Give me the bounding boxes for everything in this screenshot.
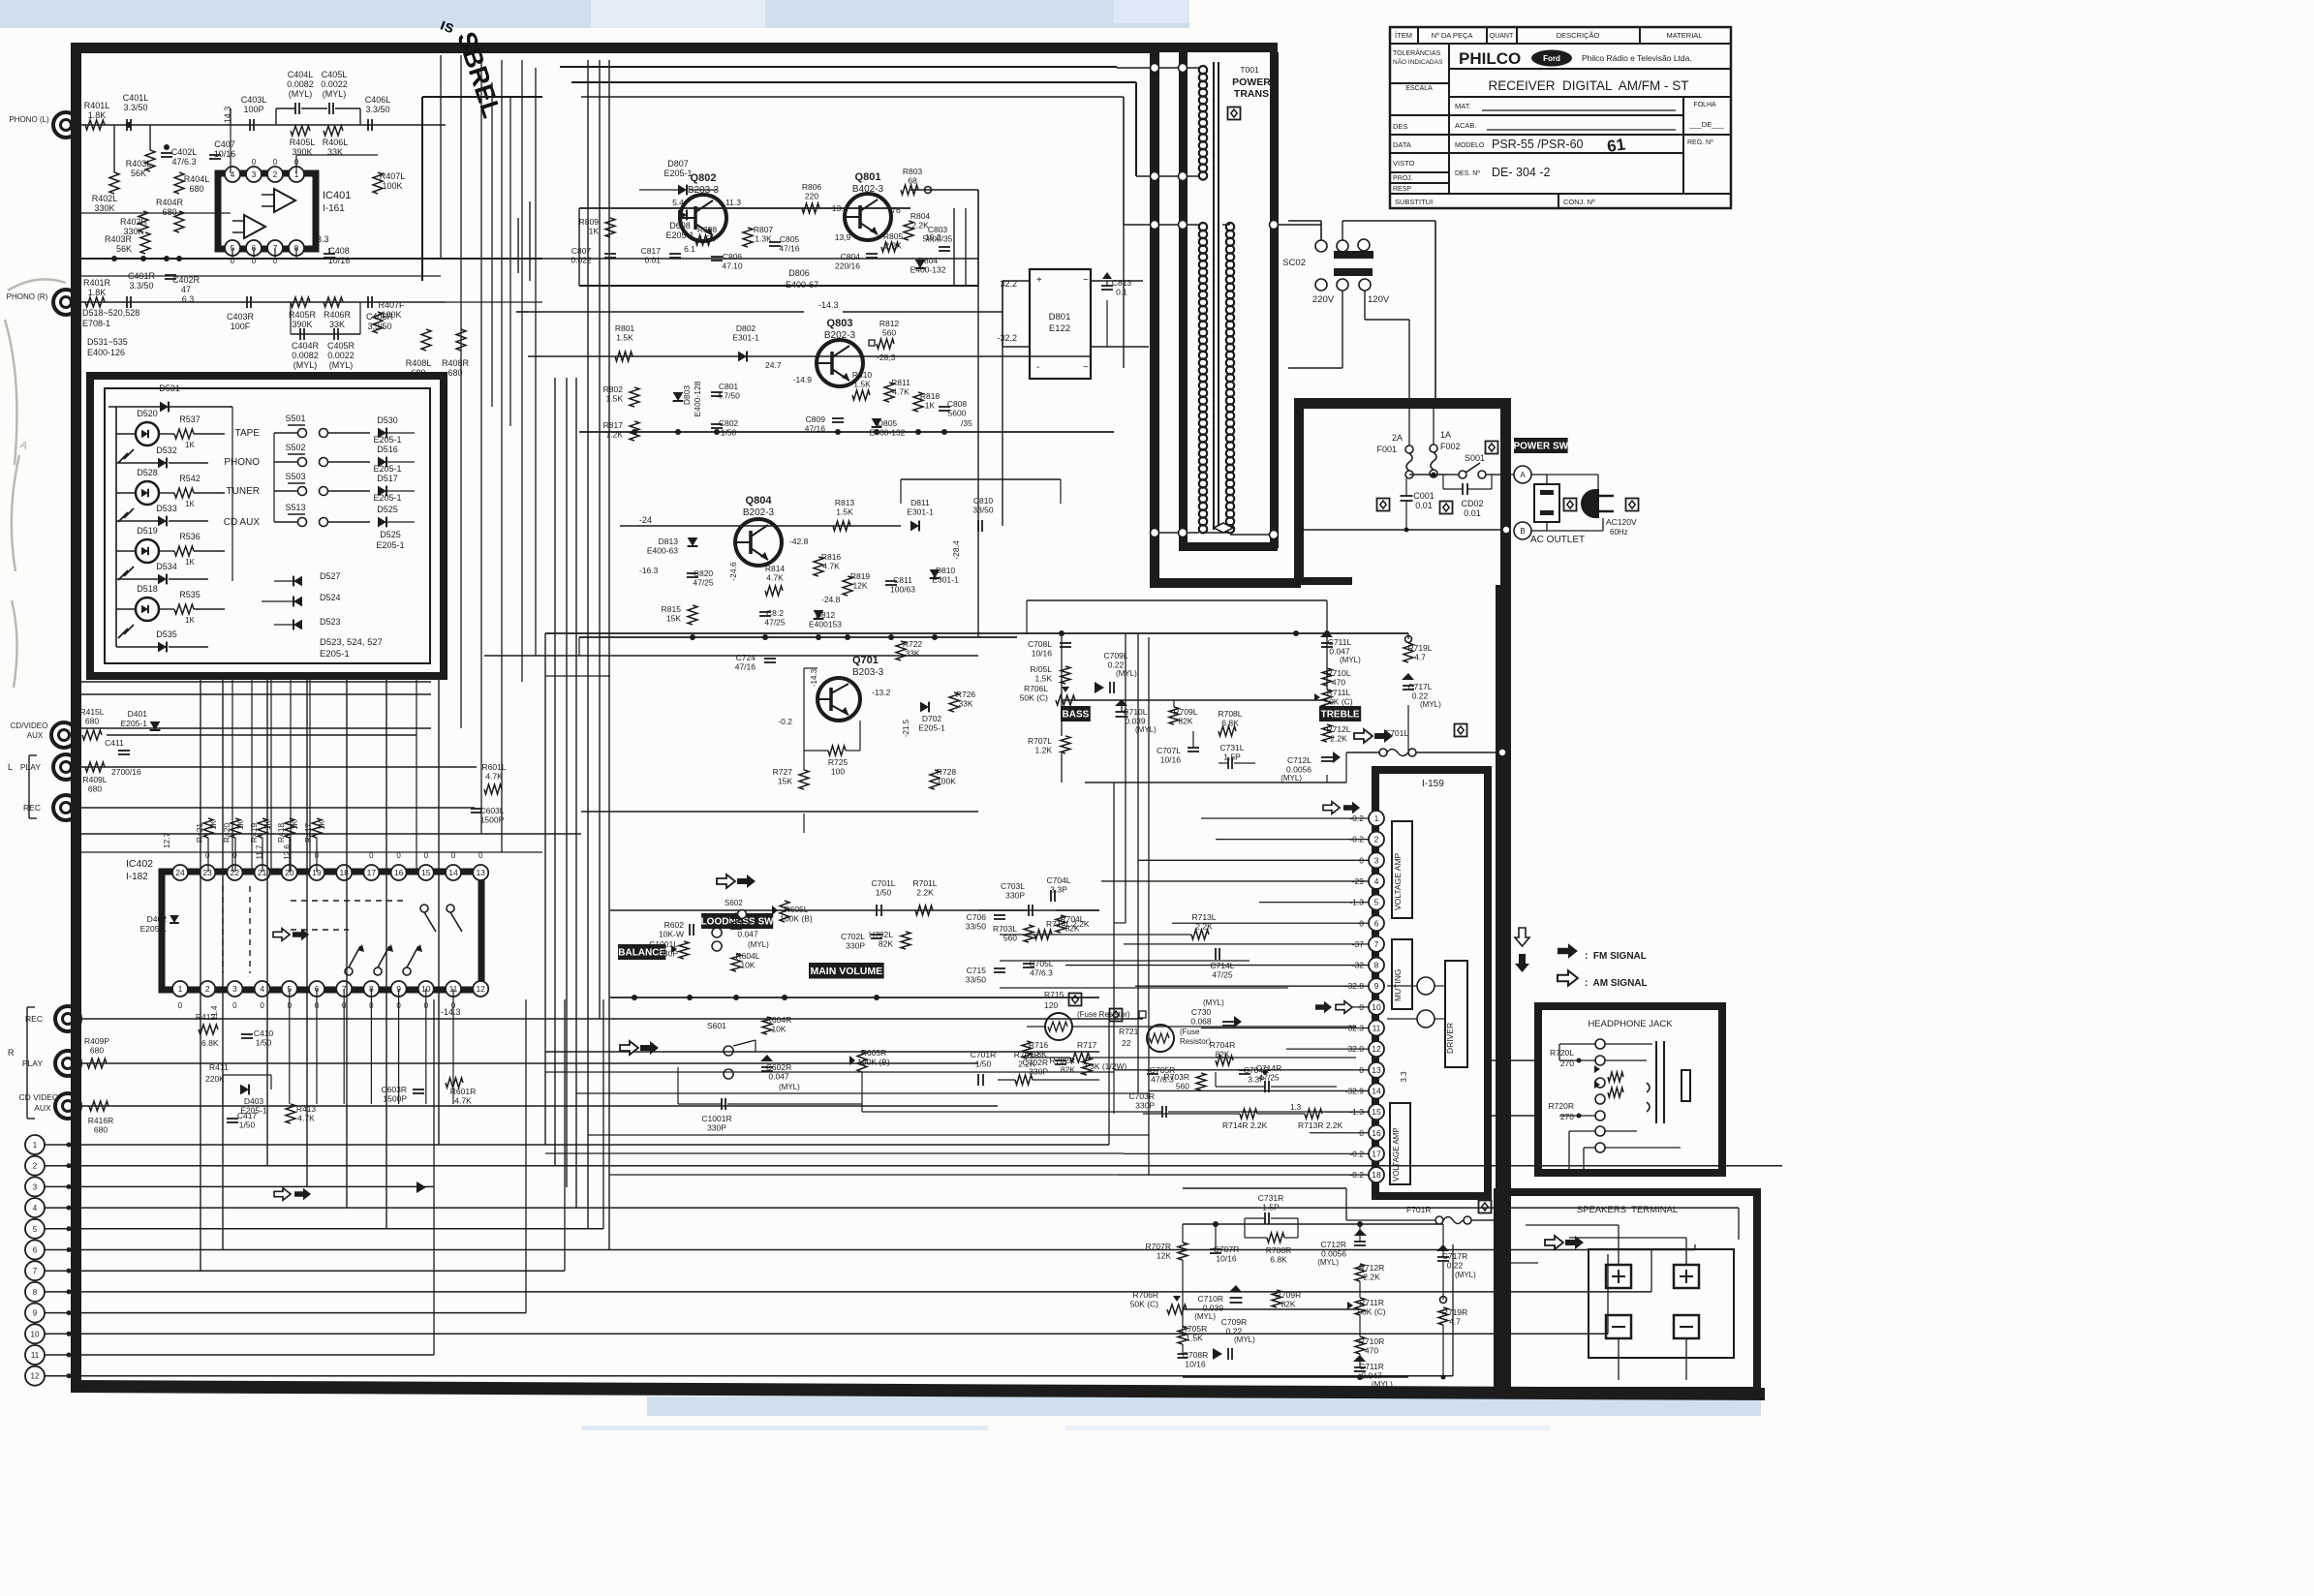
svg-text:Q803: Q803 (827, 318, 853, 329)
resistor R801 (615, 352, 632, 361)
IC402 internal switch (345, 967, 353, 975)
resistor R416R (89, 1101, 108, 1111)
resistor R703L (1024, 925, 1034, 942)
svg-text:(MYL): (MYL) (1203, 998, 1224, 1007)
capacitor C401L (126, 119, 128, 131)
wire speaker feeds (1511, 1262, 1538, 1264)
title acab underline (1487, 129, 1676, 131)
title block row line mat (1390, 114, 1683, 116)
LED D519 (136, 539, 159, 563)
svg-text:100K: 100K (937, 777, 956, 786)
capacitor C403L (249, 119, 251, 131)
svg-text:R406R: R406R (324, 310, 352, 320)
arrow am fm speakers (1545, 1236, 1563, 1249)
svg-text:D520: D520 (137, 409, 158, 418)
IC401 pin 7 (267, 240, 283, 256)
capacitor C411 (118, 750, 130, 752)
svg-text:C417: C417 (237, 1111, 258, 1120)
terminal node 7 (25, 1261, 45, 1280)
diode D810 (930, 569, 941, 578)
svg-text:S503: S503 (285, 472, 305, 481)
svg-text:4.7K: 4.7K (485, 772, 503, 782)
diode D702 (920, 702, 929, 713)
svg-text:R601R: R601R (450, 1087, 476, 1096)
svg-text:R408L: R408L (406, 358, 432, 368)
terminal node 12 (25, 1366, 45, 1386)
svg-text:S601: S601 (707, 1021, 726, 1030)
IC701 pin 11 (1369, 1021, 1384, 1036)
arrow am fm volume (717, 875, 735, 888)
svg-text:R710L: R710L (1326, 668, 1350, 678)
svg-text:NÃO INDICADAS: NÃO INDICADAS (1393, 57, 1443, 66)
svg-text:680: 680 (90, 1046, 104, 1056)
svg-text:R727: R727 (773, 767, 793, 777)
svg-text:D802: D802 (736, 323, 756, 333)
svg-text:Ford: Ford (1543, 54, 1560, 63)
svg-text:E205-1: E205-1 (373, 464, 401, 474)
svg-text:CD AUX: CD AUX (224, 517, 261, 528)
svg-text:4: 4 (1374, 876, 1379, 886)
svg-text:120V: 120V (1368, 294, 1390, 305)
IC701 pin 16 (1369, 1125, 1384, 1141)
svg-text:PROJ.: PROJ. (1393, 175, 1413, 182)
IC402 pin 5 (282, 981, 297, 997)
capacitor C717L (1403, 685, 1414, 687)
resistor R537 (174, 429, 194, 439)
IC701 pin 5 (1369, 895, 1384, 910)
svg-text:1K: 1K (185, 500, 195, 508)
svg-text:15: 15 (421, 868, 431, 877)
resistor R705L (1061, 666, 1070, 684)
title block row proj divider (1390, 182, 1449, 184)
svg-text:S501: S501 (285, 414, 305, 423)
wire ic402 risers (289, 989, 291, 1104)
terminal node 1 (25, 1135, 45, 1154)
transformer secondary coil left (1199, 223, 1207, 230)
svg-text:C813: C813 (1112, 278, 1132, 288)
svg-text:10: 10 (31, 1330, 40, 1338)
svg-text:R404R: R404R (156, 198, 184, 207)
svg-text:10/16: 10/16 (328, 256, 351, 265)
capacitor C705L (1023, 963, 1034, 965)
resistor R806 (802, 203, 819, 213)
svg-text:C403L: C403L (241, 95, 267, 105)
svg-text:H702L: H702L (869, 930, 893, 939)
resistor R818 (913, 392, 923, 412)
IC402 pin 16 (391, 865, 407, 880)
svg-text:R403L: R403L (126, 159, 152, 169)
svg-text:D517: D517 (377, 474, 398, 483)
svg-text:0.22: 0.22 (1108, 660, 1125, 670)
resistor R405R (291, 297, 310, 307)
svg-text:1K: 1K (589, 227, 600, 236)
svg-text:R415L: R415L (79, 707, 104, 717)
resistor R713L (1191, 930, 1209, 939)
svg-text:13.4: 13.4 (832, 203, 848, 213)
svg-text:D807: D807 (667, 159, 689, 169)
svg-text:1.2K: 1.2K (606, 430, 624, 440)
label VOLTAGE AMP lower (1390, 1103, 1410, 1184)
svg-text:R816: R816 (821, 552, 842, 562)
capacitor C817 (669, 253, 681, 255)
IC402 internal switch (403, 967, 411, 975)
svg-text:AC OUTLET: AC OUTLET (1530, 535, 1585, 545)
svg-text:5: 5 (33, 1225, 38, 1234)
svg-text:IC701: IC701 (1422, 765, 1450, 777)
resistor R417 (312, 818, 322, 838)
terminal node 4 (25, 1198, 45, 1217)
svg-text:16: 16 (394, 868, 404, 877)
svg-text:S513: S513 (285, 503, 305, 512)
svg-text:D813: D813 (659, 537, 679, 546)
svg-text:R706R: R706R (1133, 1290, 1158, 1300)
svg-text:C817: C817 (641, 246, 662, 256)
svg-text:: FM SIGNAL: : FM SIGNAL (1585, 951, 1647, 962)
wire q803 base rail (528, 355, 1090, 357)
svg-text:4.7K: 4.7K (297, 1114, 315, 1123)
circle A (1514, 466, 1531, 483)
svg-text:0.01: 0.01 (1415, 501, 1433, 510)
svg-text:47.10: 47.10 (722, 261, 743, 271)
IC701 box (1375, 770, 1488, 1196)
IC401 pin 4 (225, 167, 240, 182)
svg-text:E400153: E400153 (809, 620, 842, 629)
connector PHONO L (53, 112, 78, 138)
switch block inner line (105, 388, 430, 663)
resistor R419 (258, 818, 267, 838)
capacitor C410 (241, 1033, 253, 1035)
selector bar 1 (1334, 251, 1373, 259)
power box right bar (1500, 398, 1511, 1396)
svg-text:10/16: 10/16 (1216, 1254, 1237, 1264)
svg-text:D401: D401 (128, 709, 148, 719)
svg-text:DESCRIÇÃO: DESCRIÇÃO (1557, 31, 1600, 40)
wire -14.3 rail (516, 311, 804, 313)
resistor R401R (85, 297, 105, 307)
svg-text:6: 6 (1374, 918, 1379, 928)
wire q802 cluster frame (579, 207, 910, 209)
capacitor C1001L (689, 924, 691, 936)
wire fuse rail (1409, 474, 1448, 476)
svg-text:R411: R411 (209, 1062, 229, 1072)
svg-text:PHILCO: PHILCO (1459, 49, 1521, 68)
wire left bus verticals (438, 680, 440, 1145)
svg-text:R804: R804 (910, 211, 931, 221)
terminal node 6 (25, 1241, 45, 1260)
svg-text:SC02: SC02 (1282, 258, 1306, 268)
svg-text:(MYL): (MYL) (1234, 1335, 1255, 1344)
resistor R702R (1082, 1058, 1092, 1075)
wire rails to ic701 zone (1114, 922, 1126, 924)
label BALANCE (618, 944, 665, 960)
resistor R403L (145, 150, 155, 171)
svg-text:60Hz: 60Hz (1610, 528, 1628, 537)
svg-text:9: 9 (1374, 981, 1379, 991)
svg-text:2700/16: 2700/16 (111, 767, 141, 777)
svg-text:R808: R808 (697, 225, 718, 234)
svg-text:E205-1: E205-1 (918, 723, 945, 733)
svg-text:E301-1: E301-1 (907, 507, 934, 517)
IC402 pin 3 (227, 981, 242, 997)
svg-text:S602: S602 (725, 899, 743, 907)
connector REC R (55, 1006, 80, 1031)
IC402 pin 15 (418, 865, 434, 880)
svg-text:VOLTAGE AMP: VOLTAGE AMP (1393, 852, 1403, 910)
svg-text:C410: C410 (254, 1028, 274, 1038)
svg-text:Q804: Q804 (746, 495, 773, 506)
svg-text:16: 16 (1372, 1128, 1381, 1138)
wire nested top line 1 (560, 66, 1117, 68)
svg-text:220: 220 (805, 192, 818, 201)
svg-text:E205-1: E205-1 (376, 540, 404, 550)
svg-text:22: 22 (1122, 1038, 1131, 1048)
resistor R409L (85, 762, 105, 772)
wire volume R rails (545, 1051, 1099, 1053)
svg-text:C724: C724 (736, 653, 756, 662)
transformer diamond symbol (1228, 107, 1241, 120)
svg-text:RECEIVER DIGITAL AM/FM - ST: RECEIVER DIGITAL AM/FM - ST (1488, 78, 1688, 93)
resistor R707L (1061, 736, 1070, 753)
svg-text:DRIVER: DRIVER (1445, 1023, 1455, 1054)
svg-text:(MYL): (MYL) (323, 89, 347, 99)
IC401 pin 2 (267, 167, 283, 182)
IC402 pin 4 (255, 981, 270, 997)
svg-text:82K: 82K (1178, 717, 1192, 726)
svg-text:B203-3: B203-3 (852, 667, 884, 678)
diode D523 (293, 620, 302, 630)
svg-text:IC402: IC402 (126, 858, 153, 870)
wire phono R (78, 301, 446, 303)
svg-text:R706L: R706L (1024, 684, 1048, 693)
diode D807 (678, 185, 687, 196)
label BASS (1061, 706, 1091, 721)
pot R605R (857, 1051, 867, 1072)
svg-text:7: 7 (33, 1267, 38, 1275)
wire switch top rail (108, 406, 232, 408)
speakers terminal box (1497, 1192, 1757, 1391)
svg-text:B: B (1520, 527, 1525, 536)
resistor R810 (852, 390, 870, 400)
capacitor C806 (711, 256, 723, 258)
svg-text:ACAB.: ACAB. (1455, 121, 1477, 130)
svg-text:-13.2: -13.2 (872, 688, 891, 697)
capacitor C812 (759, 611, 771, 613)
svg-text:47/6.3: 47/6.3 (171, 157, 196, 167)
svg-text:D403: D403 (244, 1096, 264, 1106)
headphone contact 5 (1595, 1111, 1605, 1120)
wire f701 row (1416, 752, 1496, 753)
title block row line data (1390, 152, 1683, 154)
resistor R704L (1056, 915, 1065, 933)
svg-text:-14.3: -14.3 (818, 300, 839, 310)
switch block outer frame (90, 376, 444, 676)
resistor R705R (1178, 1327, 1188, 1344)
IC402 pin 19 (309, 865, 324, 880)
svg-text:R535: R535 (179, 590, 201, 599)
wire speakers internals (1618, 1249, 1620, 1265)
svg-text:1,5K: 1,5K (1035, 674, 1053, 684)
svg-text:D528: D528 (137, 468, 158, 477)
svg-text:E400-126: E400-126 (87, 348, 125, 357)
capacitor C805 (769, 241, 781, 243)
svg-text:C717L: C717L (1407, 682, 1432, 691)
top blue strip fade right (1114, 0, 1189, 23)
resistor R412 (199, 1025, 218, 1034)
LED D518 (136, 598, 159, 621)
svg-text:1.5K: 1.5K (853, 380, 871, 389)
resistor R805 (881, 242, 899, 252)
svg-text:0.01: 0.01 (1464, 508, 1481, 518)
svg-text:-: - (1036, 362, 1039, 373)
svg-text:(MYL): (MYL) (1116, 669, 1137, 678)
svg-text:R405R: R405R (289, 310, 317, 320)
svg-text:18: 18 (339, 868, 349, 877)
svg-text:R720L: R720L (1550, 1048, 1574, 1058)
svg-text:0: 0 (178, 1001, 183, 1010)
svg-text:2.2K: 2.2K (1363, 1273, 1380, 1282)
svg-text:47/16: 47/16 (735, 662, 756, 672)
resistor R716 (1022, 1041, 1032, 1059)
capacitor C707R (1210, 1248, 1221, 1250)
svg-text:C715: C715 (967, 966, 987, 975)
svg-text:12K: 12K (852, 581, 867, 591)
resistor R713R (1305, 1109, 1322, 1119)
op-amp U1b (244, 215, 265, 238)
terminal node 11 (25, 1345, 45, 1365)
top blue strip light patch (591, 0, 765, 28)
wire phono L (78, 124, 446, 126)
svg-text:C711R: C711R (1359, 1362, 1384, 1371)
svg-text:C710L: C710L (1123, 707, 1147, 717)
svg-text:I-159: I-159 (1422, 779, 1444, 789)
svg-text:1.5P: 1.5P (1223, 752, 1241, 762)
capacitor C712L (1321, 756, 1333, 758)
wire q701 top rail (578, 637, 580, 656)
svg-text:2: 2 (273, 169, 278, 179)
svg-text:C407: C407 (214, 139, 235, 149)
svg-text:R703R: R703R (1164, 1072, 1189, 1082)
svg-text:R810: R810 (852, 370, 873, 380)
svg-text:D402: D402 (147, 914, 168, 924)
wire led left bus (115, 407, 117, 647)
svg-text:3: 3 (252, 169, 257, 179)
svg-text:Q701: Q701 (852, 655, 879, 666)
IC402 pin 13 (473, 865, 488, 880)
resistor R727 (799, 770, 809, 789)
svg-text:C712L: C712L (1287, 755, 1311, 765)
diamond sym f701r (1479, 1201, 1492, 1213)
svg-text:L: L (8, 762, 13, 772)
svg-text:6.1: 6.1 (684, 244, 695, 254)
IC402 pin 10 (418, 981, 434, 997)
diode D535 (158, 642, 167, 653)
svg-text:17: 17 (367, 868, 377, 877)
diode D608 (678, 210, 687, 221)
headphone contact 6 (1595, 1126, 1605, 1136)
svg-text:47/25: 47/25 (693, 578, 714, 588)
IC402 pin 24 (172, 865, 188, 880)
resistor R813 (833, 521, 850, 531)
svg-text:E205-1: E205-1 (373, 435, 401, 445)
svg-text:1: 1 (178, 984, 183, 994)
capacitor C731R (1264, 1212, 1266, 1224)
bottom blue scanner strip (647, 1396, 1761, 1416)
svg-text:4.7/50: 4.7/50 (717, 391, 740, 401)
resistor R719R (1438, 1307, 1448, 1325)
svg-text:0: 0 (260, 1001, 264, 1010)
svg-text:C408: C408 (328, 246, 350, 256)
svg-text:2.2K: 2.2K (911, 221, 929, 230)
wire play/rec lines (78, 766, 477, 768)
svg-text:18: 18 (1372, 1170, 1381, 1180)
svg-text:R725: R725 (828, 757, 848, 767)
selector bar 2 (1334, 268, 1373, 276)
svg-text:470: 470 (1365, 1346, 1378, 1356)
svg-text:680: 680 (85, 717, 99, 726)
svg-text:CD/VIDEO: CD/VIDEO (11, 721, 48, 730)
capacitor C714L (1215, 948, 1217, 960)
label DRIVER (1445, 961, 1467, 1067)
svg-text:R707R: R707R (1146, 1242, 1171, 1251)
resistor R708L (1219, 726, 1236, 736)
left margin faint marks (5, 279, 66, 688)
wire selector (1288, 220, 1321, 222)
svg-text:47/25: 47/25 (1258, 1073, 1280, 1083)
speakers inner box (1589, 1249, 1734, 1358)
headphone contact 2 (1595, 1056, 1605, 1065)
svg-text:C811: C811 (893, 575, 912, 585)
capacitor C724 (764, 658, 776, 660)
svg-text:POWER: POWER (1232, 77, 1271, 88)
svg-text:C1001R: C1001R (701, 1114, 731, 1123)
title block left col divider (1448, 44, 1450, 194)
IC701 pin 8 (1369, 958, 1384, 973)
svg-text:R809: R809 (579, 217, 600, 227)
IC402 pin 2 (200, 981, 215, 997)
selector SC02 top circles (1315, 240, 1327, 252)
arrow am fm terminals (274, 1188, 291, 1201)
resistor R604L (731, 954, 741, 971)
svg-text:MODELO: MODELO (1455, 142, 1485, 149)
capacitor C703R (1161, 1106, 1163, 1118)
resistor R712R (1355, 1264, 1365, 1281)
svg-text:0: 0 (252, 158, 257, 167)
capacitor C801 (711, 391, 723, 393)
capacitor C808 (939, 406, 950, 408)
power transformer outer left bar (1150, 43, 1159, 588)
svg-text:-24.8: -24.8 (821, 595, 841, 604)
svg-text:MATERIAL: MATERIAL (1667, 31, 1703, 40)
power transformer inner bottom bar (1179, 542, 1278, 551)
svg-text:R407L: R407L (380, 171, 406, 181)
capacitor C813 (1101, 285, 1113, 287)
svg-text:1K: 1K (185, 616, 195, 625)
svg-text:C806: C806 (723, 252, 743, 261)
svg-text:33K: 33K (958, 699, 972, 709)
svg-text:PLAY: PLAY (22, 1059, 43, 1068)
svg-text:MUTING: MUTING (1393, 968, 1403, 1001)
svg-text:6: 6 (33, 1246, 38, 1255)
wire led row D520 (116, 433, 136, 435)
svg-text:E400-67: E400-67 (786, 280, 818, 290)
svg-text:4.7K: 4.7K (454, 1096, 472, 1106)
svg-text:C602L: C602L (735, 920, 759, 930)
svg-text:C801: C801 (719, 382, 739, 391)
svg-text:Q801: Q801 (855, 171, 881, 183)
svg-text:TOLERÂNCIAS: TOLERÂNCIAS (1393, 48, 1441, 57)
bottom faint blue dashes (581, 1426, 988, 1430)
capacitor C417 (227, 1118, 238, 1120)
